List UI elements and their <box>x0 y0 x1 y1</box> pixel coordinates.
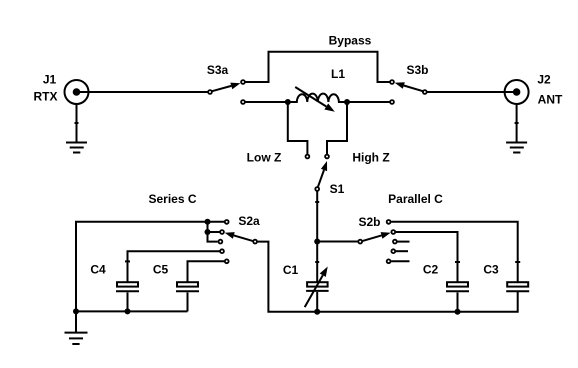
svg-text:C3: C3 <box>483 263 499 277</box>
svg-text:Parallel C: Parallel C <box>388 192 443 206</box>
switch S3a <box>207 63 245 104</box>
node ground junction <box>73 308 79 314</box>
inductor L1 <box>288 67 347 112</box>
wire L1 left to Low Z tap <box>288 102 308 154</box>
wire S2b contact5 stub <box>391 260 409 262</box>
ground bottom left <box>65 311 88 344</box>
switch S3b <box>390 63 428 104</box>
switch S1 <box>315 161 344 196</box>
node High Z <box>325 151 390 165</box>
svg-text:C4: C4 <box>90 263 106 277</box>
wire S2a pivot to bottom rail <box>258 242 518 312</box>
capacitor C1 (variable) <box>283 263 329 312</box>
svg-text:L1: L1 <box>331 67 345 81</box>
svg-text:ANT: ANT <box>538 93 563 107</box>
capacitor C5 <box>153 263 199 312</box>
svg-text:C5: C5 <box>153 263 169 277</box>
capacitor C3 <box>483 262 529 291</box>
switch S2b <box>358 215 396 263</box>
node L1 right <box>344 99 350 105</box>
wire S2a contact4 to C4 <box>128 251 220 281</box>
wire S2a contact3 tie <box>208 222 218 242</box>
svg-text:S2a: S2a <box>238 214 260 228</box>
wire series-C common to ground leg <box>76 222 224 312</box>
svg-text:Low Z: Low Z <box>247 151 282 165</box>
wire J1 to S3a <box>77 91 208 93</box>
node C4 bottom <box>125 308 131 314</box>
svg-text:C2: C2 <box>423 263 439 277</box>
svg-text:Bypass: Bypass <box>329 34 372 48</box>
svg-text:C1: C1 <box>283 263 299 277</box>
node S2a tie mid <box>205 229 211 235</box>
svg-text:S1: S1 <box>330 182 345 196</box>
wire S1 to node A <box>316 192 318 242</box>
wire S2b contact4 stub <box>396 250 408 252</box>
wire S2b contact3 stub <box>397 241 409 243</box>
capacitor C2 <box>423 262 469 312</box>
node C2 bottom <box>455 309 461 315</box>
connector J2 <box>505 73 563 107</box>
svg-text:RTX: RTX <box>34 90 58 104</box>
ground rail series side <box>76 310 188 312</box>
wire S2a contact5 to C5 <box>188 261 225 281</box>
connector J1 <box>34 73 89 105</box>
wire node A to C1 <box>316 242 318 282</box>
wire S3b lower contact to L1 <box>347 101 390 103</box>
wire S2b contact1 to C3 <box>391 222 518 282</box>
node C1 bottom <box>314 309 320 315</box>
svg-text:S3a: S3a <box>207 63 229 77</box>
wire J2 to S3b <box>427 91 517 93</box>
wire S3a lower contact to L1 <box>246 101 288 103</box>
ground at J1 <box>66 104 87 153</box>
svg-text:J1: J1 <box>43 73 57 87</box>
capacitor C4 <box>90 261 139 311</box>
wire node A to S2b <box>317 241 358 243</box>
ground at J2 <box>506 104 527 153</box>
wire S2a contact2 tie <box>208 231 220 233</box>
svg-text:S2b: S2b <box>358 215 380 229</box>
svg-text:S3b: S3b <box>406 63 428 77</box>
node L1 left <box>285 99 291 105</box>
wire S2b contact2 to C2 <box>396 232 458 282</box>
wire L1 right to High Z tap <box>327 102 347 154</box>
svg-text:J2: J2 <box>537 73 551 87</box>
node A (S1/C1/S2b junction) <box>314 239 320 245</box>
node Low Z <box>247 151 310 165</box>
svg-text:High Z: High Z <box>352 151 389 165</box>
bypass wire <box>246 34 390 83</box>
node S2a tie top <box>205 219 211 225</box>
svg-text:Series C: Series C <box>148 192 196 206</box>
switch S2a <box>219 214 260 263</box>
